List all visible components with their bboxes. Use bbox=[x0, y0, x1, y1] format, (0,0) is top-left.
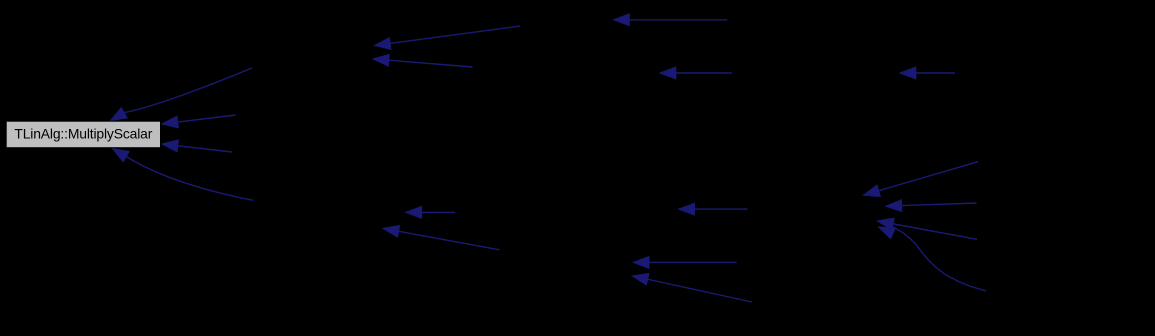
edge caller arrow lower-center horizontal bbox=[633, 257, 737, 269]
edge caller arrow center horizontal bbox=[679, 203, 748, 215]
edge caller arrow upper-left diagonal bbox=[375, 26, 520, 49]
edge into MultiplyScalar right lower bbox=[162, 140, 232, 152]
edge caller arrow right fan top bbox=[864, 162, 979, 197]
edge caller arrow top-right bbox=[900, 67, 955, 79]
edge caller arrow lower-left diagonal bbox=[383, 226, 500, 250]
edge caller arrow upper-left short bbox=[373, 54, 473, 67]
edge curved squiggle right fan bottom bbox=[879, 226, 987, 291]
edge caller arrow mid-left horizontal bbox=[406, 207, 455, 219]
edge caller arrow lower-center diagonal bbox=[632, 274, 752, 303]
edge caller arrow right fan third bbox=[878, 218, 978, 239]
edge curved into MultiplyScalar top bbox=[111, 68, 253, 121]
edge caller arrow top-center bbox=[614, 14, 728, 26]
edge curved into MultiplyScalar bottom bbox=[113, 149, 254, 201]
edge into MultiplyScalar right upper bbox=[162, 115, 236, 128]
svg-text:TLinAlg::MultiplyScalar: TLinAlg::MultiplyScalar bbox=[14, 125, 152, 141]
edge caller arrow mid-top center bbox=[660, 67, 732, 79]
node TLinAlg::MultiplyScalar bbox=[6, 121, 160, 148]
edge caller arrow right fan second bbox=[886, 200, 977, 212]
